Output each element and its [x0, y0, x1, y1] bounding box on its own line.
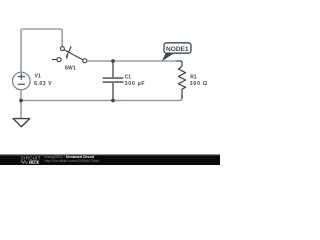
svg-text:6.03 V: 6.03 V [34, 81, 52, 87]
wire [20, 101, 22, 119]
node junction dot [19, 99, 23, 103]
capacitor C1 [103, 61, 124, 101]
watermark logo CircuitLab [21, 156, 41, 165]
svg-text:NODE1: NODE1 [166, 46, 189, 53]
wire [20, 90, 22, 101]
wire [21, 95, 182, 101]
ground [13, 119, 29, 127]
node junction dot [111, 59, 115, 63]
svg-text:SW1: SW1 [65, 65, 76, 71]
node junction dot [111, 99, 115, 103]
svg-text:300 µF: 300 µF [125, 81, 146, 87]
svg-text:LAB: LAB [30, 160, 38, 164]
voltage source V1 [12, 72, 30, 90]
resistor R1 [177, 61, 186, 99]
svg-text:V1: V1 [35, 74, 41, 80]
wire [87, 60, 177, 62]
svg-text:C1: C1 [125, 75, 132, 81]
svg-text:http://circuitlab.com/c/2995dc: http://circuitlab.com/c/2995dc76hk4 [45, 159, 100, 163]
switch SW1 [52, 46, 87, 63]
wire [21, 29, 62, 72]
svg-text:R1: R1 [190, 75, 197, 81]
node NODE1 flag [162, 43, 191, 61]
svg-text:300 Ω: 300 Ω [190, 81, 208, 87]
